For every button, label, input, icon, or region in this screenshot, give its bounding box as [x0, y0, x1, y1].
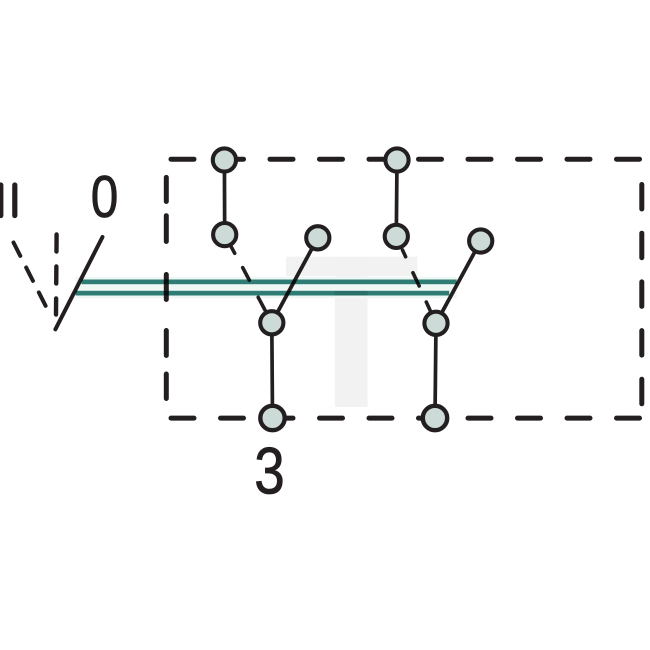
switch 2 dashed contact diagonal — [403, 250, 432, 313]
box dashed border right — [639, 185, 644, 407]
watermark T bar — [286, 257, 417, 276]
switch 1 terminal circle top — [213, 148, 236, 171]
switch 1 contact circle NO — [306, 226, 329, 249]
box dashed border top — [171, 157, 642, 162]
switch 2 contact circle NO — [469, 229, 492, 252]
watermark stem shading over lower teal line — [335, 291, 368, 296]
mechanical linkage upper teal line — [82, 280, 457, 285]
mechanical linkage lower teal line — [76, 291, 450, 296]
box dashed border left — [164, 177, 169, 398]
svg-text:0: 0 — [91, 164, 119, 230]
position marker II bar 1 — [0, 185, 3, 216]
switch 1 wire top vertical — [223, 160, 227, 235]
switch 2 terminal circle bottom — [423, 406, 447, 430]
switch 2 wire top vertical — [394, 160, 398, 236]
switch 1 terminal circle bottom — [260, 406, 284, 430]
switch 1 wire bottom vertical — [270, 323, 274, 418]
switch 2 wire bottom vertical — [435, 323, 436, 418]
switch 2 terminal circle top — [385, 148, 408, 171]
position marker II bar 2 — [12, 185, 17, 216]
box dashed border bottom — [171, 416, 642, 421]
switch 2 common circle — [424, 312, 447, 335]
actuator lever solid — [55, 237, 102, 329]
actuator dashed vertical middle — [54, 235, 59, 315]
switch 1 common circle — [260, 311, 283, 334]
switch 2 lever — [436, 241, 481, 323]
label 3 — [254, 434, 284, 508]
mechanical linkage halo — [76, 277, 457, 299]
switch 1 dashed contact diagonal — [230, 245, 265, 311]
svg-text:3: 3 — [254, 434, 284, 508]
label 0 — [91, 164, 119, 230]
switch 2 contact circle NC — [385, 225, 408, 248]
switch 1 lever — [272, 238, 318, 323]
actuator dashed diagonal left — [14, 243, 50, 314]
switch 1 contact circle NC — [213, 223, 236, 246]
watermark T stem — [335, 257, 368, 407]
